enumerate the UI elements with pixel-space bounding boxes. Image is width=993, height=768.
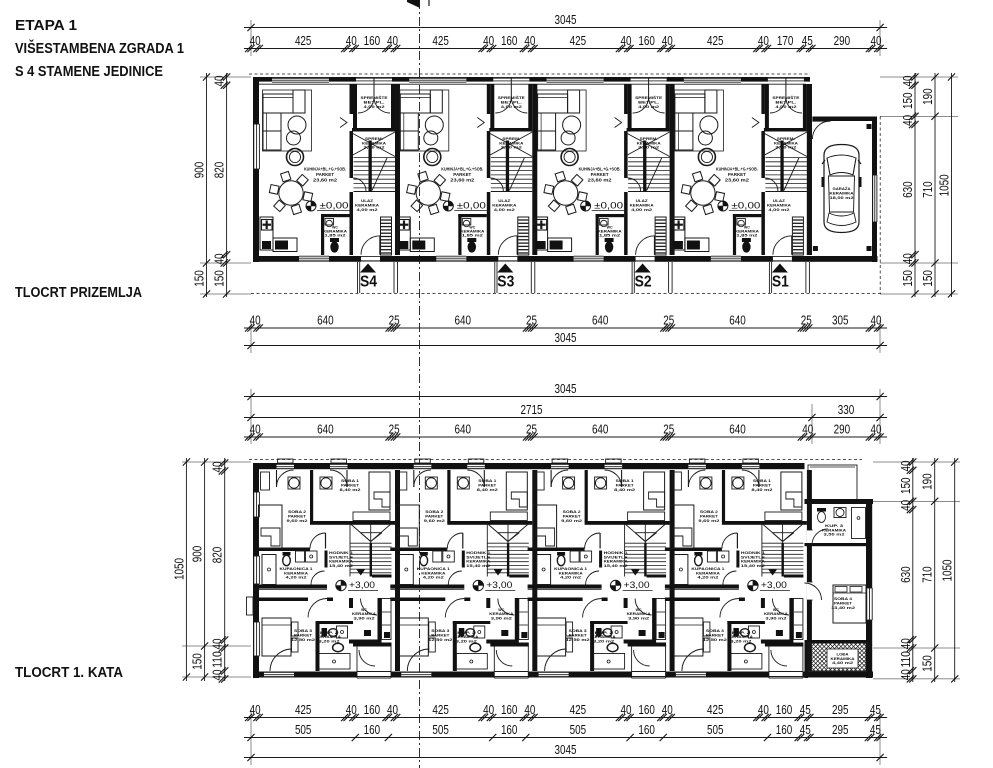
svg-text:45: 45 [800,722,811,737]
wc room first floor [652,598,656,640]
svg-text:25: 25 [663,421,674,436]
svg-text:SPREMIŠTE: SPREMIŠTE [772,95,800,100]
terrace door arc [359,650,375,666]
dishwasher [674,241,683,249]
svg-text:4,00 m2: 4,00 m2 [631,208,652,212]
svg-text:110: 110 [210,651,225,668]
svg-text:45: 45 [802,33,813,48]
soba1 furniture [781,472,802,510]
balcony door arc soba2 [550,470,552,487]
svg-text:12,50 m2: 12,50 m2 [291,638,315,642]
window bottom wall ground unit 4 [711,256,741,261]
svg-text:40: 40 [387,33,398,48]
svg-text:PARKET: PARKET [706,633,725,637]
recessed terrace [357,671,391,678]
svg-text:40: 40 [483,702,494,717]
svg-text:+3,00: +3,00 [349,580,375,591]
nightstands with lamps [425,477,437,489]
WC fixtures [325,219,334,226]
stairs [354,157,396,159]
stair door arc [353,178,366,191]
soba3 bed [399,618,428,656]
terrace door arc soba3 [682,649,704,671]
porch lines below [768,262,770,293]
svg-text:23,60 m2: 23,60 m2 [313,177,337,182]
partition soba2/soba1 [310,470,313,522]
unit marker S4 [360,264,376,273]
svg-text:3,40 m2: 3,40 m2 [775,146,796,150]
loggia wall left [805,640,809,678]
svg-text:3,40 m2: 3,40 m2 [501,146,522,150]
svg-text:S 4 STAMENE JEDINICE: S 4 STAMENE JEDINICE [15,64,163,80]
bath door arc [586,571,600,585]
svg-text:160: 160 [364,33,381,48]
svg-text:4,40 m2: 4,40 m2 [832,661,853,665]
svg-text:SOBA 3: SOBA 3 [569,629,587,633]
svg-text:BET.PL.: BET.PL. [638,100,659,104]
svg-text:PARKET: PARKET [591,172,609,177]
terrace door arc [771,650,787,666]
svg-text:170: 170 [777,33,794,48]
svg-text:9,60 m2: 9,60 m2 [287,519,308,523]
svg-text:ULAZ: ULAZ [773,199,786,203]
kitchen counter [535,217,548,250]
dim segments (ground bottom) [244,327,887,329]
soba3 bed [674,618,703,656]
terrace door arc soba3 [545,649,567,671]
roof overhang dashed (first floor) [249,459,862,461]
wall living/stair [761,84,765,114]
svg-text:150: 150 [898,478,913,495]
svg-text:40: 40 [898,669,913,680]
stair door arc [765,178,778,191]
dim total 3045 (ground top) [244,27,887,29]
wall soba3 top [253,598,308,602]
soba1 furniture [369,472,390,510]
stairs first floor [761,524,763,577]
wall soba3 top [390,598,445,602]
entry door arc [773,236,792,255]
spremiste door gap top wall unit 1 [356,78,392,82]
svg-text:ULAZ: ULAZ [361,199,374,203]
svg-text:PARKET: PARKET [478,484,497,488]
svg-text:8,40 m2: 8,40 m2 [614,488,635,492]
window bottom wall ground unit 3 [574,256,604,261]
svg-text:4,00 m2: 4,00 m2 [494,208,515,212]
svg-text:4,20 m2: 4,20 m2 [560,576,581,580]
svg-text:PARKET: PARKET [616,484,635,488]
wardrobe shelves [656,599,666,640]
svg-text:KUHINJA+BL.+G.+SOB.: KUHINJA+BL.+G.+SOB. [716,167,758,172]
svg-text:1,85 m2: 1,85 m2 [736,234,757,238]
svg-text:PARKET: PARKET [728,172,746,177]
bath fixtures [537,555,551,585]
kup3 washbasin [834,508,846,518]
svg-text:160: 160 [501,722,518,737]
unit marker S1 [772,264,788,273]
first floor left wall [253,463,259,678]
svg-text:4,00 m2: 4,00 m2 [501,105,522,109]
svg-text:40: 40 [524,702,535,717]
svg-text:PARKET: PARKET [700,515,719,519]
svg-text:23,60 m2: 23,60 m2 [450,177,474,182]
wall living/stair [624,84,628,114]
svg-text:SOBA 3: SOBA 3 [294,629,312,633]
level marker 0.00 [718,201,728,211]
loggia label [827,649,858,668]
svg-text:±0,00: ±0,00 [457,201,486,211]
svg-text:820: 820 [212,162,227,179]
svg-text:PARKET: PARKET [316,172,334,177]
svg-text:PARKET: PARKET [288,515,307,519]
svg-text:1,85 m2: 1,85 m2 [599,234,620,238]
window top wall ground unit 1 [272,78,329,82]
svg-text:640: 640 [729,312,746,327]
windows top wall first floor unit 4 [688,464,706,469]
svg-text:505: 505 [570,722,587,737]
svg-text:KERAMIKA: KERAMIKA [355,203,379,207]
dining table [279,181,303,205]
door arc soba3 [308,599,327,618]
armchair [424,149,441,166]
svg-text:3,90 m2: 3,90 m2 [628,616,649,620]
window top wall ground unit 3 [547,78,604,82]
wall soba2 bottom [528,548,585,552]
dim total 3045 (first floor top) [244,396,887,398]
svg-text:S4: S4 [360,274,377,291]
WC fixtures [737,219,746,226]
svg-text:150: 150 [900,270,915,287]
party wall [395,84,400,255]
svg-text:SOBA 3: SOBA 3 [706,629,724,633]
svg-text:40: 40 [346,702,357,717]
windows bottom wall first floor unit 1 [264,672,294,677]
door arc soba3 [720,599,739,618]
nightstands with lamps [288,477,300,489]
stairs [628,157,670,159]
porch lines below [357,262,359,293]
wall soba1 bottom / stairs top [585,521,670,525]
svg-text:40: 40 [210,670,225,681]
party wall [670,84,675,255]
shoe closet hatched [792,217,803,255]
kup3 room [805,543,867,546]
svg-text:SOBA 2: SOBA 2 [563,510,581,514]
wardrobe soba2 [672,472,681,490]
svg-text:40: 40 [900,253,915,264]
entry door gap bottom wall unit 4 [773,256,792,261]
rug outline [400,90,449,151]
nightstands with lamps [563,477,575,489]
svg-text:S3: S3 [497,274,514,291]
storage room with X [487,132,532,157]
svg-text:160: 160 [638,722,655,737]
door arc soba3 [583,599,602,618]
svg-text:PARKET: PARKET [453,172,471,177]
level marker +3.00 [473,580,483,590]
coffee table circles [700,116,718,134]
svg-text:4,20 m2: 4,20 m2 [286,576,307,580]
svg-text:160: 160 [501,33,518,48]
soba1 dresser [765,512,802,521]
svg-text:PARKET: PARKET [431,633,450,637]
svg-text:KUHINJA+BL.+G.+SOB.: KUHINJA+BL.+G.+SOB. [579,167,621,172]
loggia hatched [774,643,899,671]
garage corner pads [867,124,872,129]
svg-text:425: 425 [570,702,587,717]
door arc soba2 [447,533,463,549]
dim segments (ground top) [244,48,887,50]
svg-text:8,40 m2: 8,40 m2 [340,488,361,492]
svg-text:900: 900 [190,546,205,563]
svg-text:SPREMIŠTE: SPREMIŠTE [361,95,389,100]
roof overhang dashed (ground) [249,73,810,75]
soba2 bed [670,505,694,548]
level marker 0.00 [581,201,591,211]
annex right wall [866,499,872,678]
svg-text:9,60 m2: 9,60 m2 [698,519,719,523]
dim segments (first floor bottom row1) [244,717,887,719]
window bottom wall ground unit 2 [436,256,466,261]
bath fixtures [399,555,413,585]
svg-text:40: 40 [346,33,357,48]
svg-text:150: 150 [920,655,935,672]
kup2 room [590,621,628,624]
annex window right [867,588,872,620]
terrace top wall [765,643,804,647]
recessed terrace [632,671,666,678]
svg-text:505: 505 [707,722,724,737]
balcony door arc soba1 [346,470,348,487]
svg-text:110: 110 [898,651,913,668]
door arc soba2 [722,533,738,549]
svg-text:BET.PL.: BET.PL. [364,100,385,104]
terrace door arc [496,650,512,666]
svg-text:S1: S1 [772,274,789,291]
svg-text:PARKET: PARKET [834,602,853,606]
svg-text:9,60 m2: 9,60 m2 [561,519,582,523]
bath door arc [448,571,462,585]
svg-text:640: 640 [592,421,609,436]
party wall [807,470,812,671]
wardrobe soba2 [398,472,407,490]
kup2 room [727,621,765,624]
windows top wall first floor unit 2 [414,464,432,469]
storage room with X [625,132,670,157]
balcony door arc soba2 [413,470,415,487]
svg-text:160: 160 [638,702,655,717]
terrace top wall [353,643,392,647]
svg-text:1050: 1050 [940,560,955,582]
balcony door arc soba1 [483,470,485,487]
dim total 3045 (first floor bottom) [244,757,887,759]
svg-text:40: 40 [662,702,673,717]
svg-text:820: 820 [210,547,225,564]
svg-text:±0,00: ±0,00 [731,201,760,211]
svg-text:3,90 m2: 3,90 m2 [491,616,512,620]
terrace door arc soba3 [407,649,429,671]
door mark living [752,118,759,128]
wall soba1 bottom / stairs top [310,521,395,525]
level marker 0.00 [443,201,453,211]
svg-text:KERAMIKA: KERAMIKA [630,203,654,207]
soba1 dresser [490,512,527,521]
kup2 room [453,621,491,624]
windows left wall (first floor) [254,492,259,517]
svg-text:1,85 m2: 1,85 m2 [325,234,346,238]
armchair [561,149,578,166]
svg-text:18,00 m2: 18,00 m2 [830,195,855,200]
shoe closet hatched [381,217,392,255]
svg-text:SOBA 1: SOBA 1 [341,479,359,483]
soba1 furniture [644,472,665,510]
kup2 room [316,621,354,624]
window top wall ground unit 4 [684,78,741,82]
coffee table circles [288,116,306,134]
dim total 3045 (ground bottom) [244,345,887,347]
terrace top wall [490,643,529,647]
wc room first floor [789,598,793,640]
stairs first floor [486,524,488,577]
door mark living [615,118,622,128]
north arrow fragment [407,0,420,8]
garage left wall (party S1) [807,84,812,255]
balcony door arc soba1 [758,470,760,487]
svg-text:3045: 3045 [555,12,577,27]
unit marker S2 [635,264,651,273]
bathroom kupaonica1 [253,585,327,589]
svg-text:40: 40 [250,421,261,436]
terrace top wall [628,643,667,647]
svg-text:150: 150 [192,270,207,287]
wardrobe shelves [793,599,803,640]
wardrobe soba2 [261,472,270,490]
windows bottom wall first floor unit 2 [401,672,431,677]
svg-text:25: 25 [801,312,812,327]
svg-text:±0,00: ±0,00 [594,201,623,211]
svg-text:425: 425 [295,702,312,717]
svg-text:160: 160 [776,702,793,717]
svg-text:KUHINJA+BL.+G.+SOB.: KUHINJA+BL.+G.+SOB. [304,167,346,172]
armchair [698,149,715,166]
stove [685,238,709,252]
window bottom wall ground unit 1 [299,256,329,261]
svg-text:15,40 m2: 15,40 m2 [329,564,353,568]
stairs first floor [624,524,626,577]
left vertical dims (ground) [206,73,208,297]
wall soba3 top [665,598,720,602]
kup3 shower [852,508,866,539]
svg-text:505: 505 [432,722,449,737]
svg-text:ETAPA 1: ETAPA 1 [15,18,77,34]
svg-text:640: 640 [729,421,746,436]
svg-text:KERAMIKA: KERAMIKA [492,203,516,207]
dishwasher [262,241,271,249]
soba3 bed [537,618,566,656]
left ledge (first floor) [247,597,254,615]
svg-text:PARKET: PARKET [341,484,360,488]
dining table [691,181,715,205]
party wall [670,470,675,671]
svg-text:SPREMIŠTE: SPREMIŠTE [498,95,526,100]
door arc soba2 [310,533,326,549]
storage niche [765,84,769,128]
ground left wall [253,77,259,262]
wall living/stair [350,84,354,114]
svg-text:40: 40 [387,702,398,717]
windows top wall first floor unit 3 [551,464,569,469]
svg-text:TLOCRT PRIZEMLJA: TLOCRT PRIZEMLJA [15,285,142,301]
svg-text:S2: S2 [635,274,652,291]
svg-text:SOBA 2: SOBA 2 [700,510,718,514]
dishwasher [399,241,408,249]
svg-text:425: 425 [707,33,724,48]
svg-text:PARKET: PARKET [569,633,588,637]
wardrobe shelves [519,599,529,640]
svg-text:4,00 m2: 4,00 m2 [364,105,385,109]
svg-text:425: 425 [432,33,449,48]
bathroom kupaonica1 [528,585,602,589]
bathroom kupaonica1 [390,585,464,589]
party wall [532,470,537,671]
svg-text:12,50 m2: 12,50 m2 [428,638,452,642]
svg-text:160: 160 [364,702,381,717]
svg-text:SOBA 3: SOBA 3 [431,629,449,633]
coffee table circles [425,116,443,134]
bath door arc [311,571,325,585]
svg-text:40: 40 [898,500,913,511]
svg-text:40: 40 [524,33,535,48]
svg-text:12,50 m2: 12,50 m2 [566,638,590,642]
svg-text:425: 425 [432,702,449,717]
terrace door arc soba3 [270,649,292,671]
wall soba2 bottom [390,548,447,552]
wc door arc [361,599,378,616]
storage niche [628,84,632,128]
soba2 bed [396,505,420,548]
annex top wall [805,499,874,504]
door mark living [340,118,347,128]
dim segments (first floor bottom row2) [244,737,887,739]
windows bottom wall first floor unit 3 [539,672,569,677]
svg-text:40: 40 [210,462,225,473]
svg-text:150: 150 [190,653,205,670]
stove [410,238,434,252]
recessed terrace [494,671,528,678]
armchair [287,149,304,166]
wardrobe soba2 [535,472,544,490]
WC room walls [321,214,324,255]
kitchen counter [397,217,410,250]
terrace door arc [634,650,650,666]
svg-text:900: 900 [192,162,207,179]
storage niche [353,84,357,128]
wc room first floor [378,598,382,640]
stairs [491,157,533,159]
svg-text:SPREMIŠTE: SPREMIŠTE [635,95,663,100]
svg-text:1050: 1050 [171,558,186,580]
svg-text:SOBA 2: SOBA 2 [425,510,443,514]
svg-text:4,00 m2: 4,00 m2 [768,208,789,212]
bathroom kupaonica1 [665,585,739,589]
svg-text:45: 45 [870,702,881,717]
level marker +3.00 [748,580,758,590]
party wall [532,84,537,255]
window top wall ground unit 2 [409,78,466,82]
first floor top wall [253,463,805,469]
annex terrace outline [808,465,857,501]
porch lines below [494,262,496,293]
